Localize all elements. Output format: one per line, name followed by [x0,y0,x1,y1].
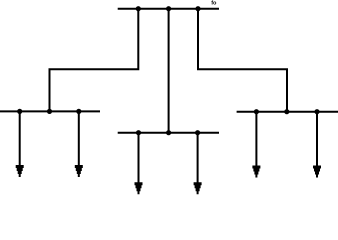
wire center feed line [168,9,170,133]
wire center bus [118,132,219,134]
svg-text:fo: fo [211,1,217,7]
node top-left junction [136,6,141,11]
node center bus arrow2 junction [195,130,200,135]
node left bus arrow1 junction [17,109,22,114]
node right bus feed junction [284,109,289,114]
node left bus feed junction [47,109,52,114]
wire left branch elbow [50,9,139,112]
node center bus arrow1 junction [136,130,141,135]
antenna element arrow A2 [75,111,83,177]
node left bus arrow2 junction [76,109,81,114]
wire left bus [0,110,100,112]
wire top feed bus [118,8,219,10]
node top-center junction [166,6,171,11]
node right bus arrow2 junction [314,109,319,114]
antenna element arrow A3 [135,133,143,195]
node center bus feed junction [166,130,171,135]
antenna element arrow A4 [194,133,202,195]
wire right branch elbow [198,9,287,112]
antenna element arrow A6 [313,112,321,178]
wire right bus [237,111,338,113]
node top-right junction [195,6,200,11]
node right bus arrow1 junction [254,109,259,114]
antenna element arrow A1 [16,111,24,177]
antenna element arrow A5 [252,112,260,178]
